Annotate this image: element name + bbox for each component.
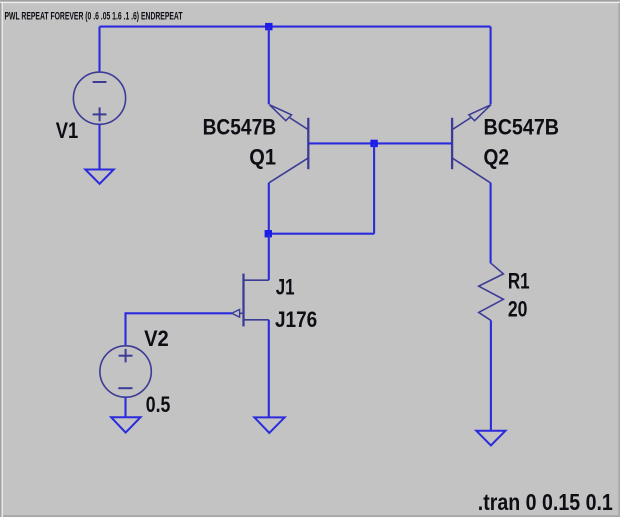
wire Q2 collector drop xyxy=(490,183,492,264)
svg-text:0.5: 0.5 xyxy=(146,392,171,417)
svg-text:Q2: Q2 xyxy=(484,145,510,170)
transistor Q1 xyxy=(269,105,309,183)
svg-text:J176: J176 xyxy=(275,307,317,332)
ground V2 xyxy=(111,417,140,432)
ground R1 xyxy=(476,431,505,446)
junction base node xyxy=(370,140,377,147)
wire J1 source drop xyxy=(268,320,270,418)
svg-text:J1: J1 xyxy=(276,275,295,300)
svg-text:V2: V2 xyxy=(144,326,169,351)
svg-text:20: 20 xyxy=(508,297,528,322)
svg-text:Q1: Q1 xyxy=(249,145,276,170)
wire base bus Q1-Q2 xyxy=(308,142,452,144)
wire top supply rail xyxy=(100,26,491,28)
junction top rail node xyxy=(265,23,272,30)
wire Q2 emitter drop xyxy=(490,27,492,105)
ground V1 xyxy=(85,170,113,184)
wire Q1 collector drop xyxy=(268,183,270,234)
wire J1 drain drop xyxy=(268,234,270,281)
wire R1 bottom stem xyxy=(490,320,492,431)
wire V1 bottom stem xyxy=(98,124,100,170)
wire V2 bottom stem xyxy=(124,397,126,418)
jfet J1 xyxy=(232,274,269,327)
svg-text:BC547B: BC547B xyxy=(484,114,560,139)
wire Q1 emitter drop xyxy=(268,27,270,105)
svg-text:PWL REPEAT FOREVER (0 .6 .05 1: PWL REPEAT FOREVER (0 .6 .05 1.6 .1 .6) … xyxy=(5,11,183,23)
svg-text:V1: V1 xyxy=(56,118,79,143)
wire collector-base tie xyxy=(268,233,374,235)
voltage source V2 xyxy=(100,346,151,397)
transistor Q2 xyxy=(452,105,491,183)
ground J1 xyxy=(254,417,284,433)
wire base node drop xyxy=(373,143,375,233)
voltage source V1 xyxy=(73,72,125,124)
resistor R1 xyxy=(479,263,504,320)
svg-text:.tran 0 0.15 0.1: .tran 0 0.15 0.1 xyxy=(478,489,613,515)
wire J1 gate to V2 xyxy=(126,313,232,346)
wire V1 top stem xyxy=(98,27,100,73)
svg-text:R1: R1 xyxy=(508,269,530,294)
svg-text:BC547B: BC547B xyxy=(203,114,277,139)
junction Q1 collector / J1 drain node xyxy=(265,230,272,237)
